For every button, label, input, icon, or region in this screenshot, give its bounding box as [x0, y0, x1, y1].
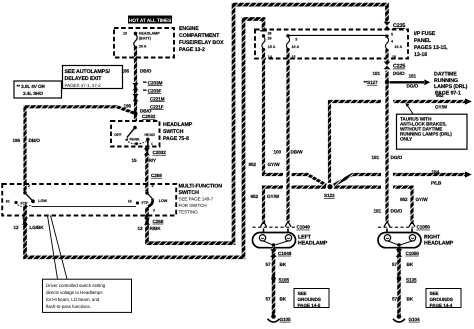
svg-text:HI: HI	[128, 199, 132, 203]
svg-text:181: 181	[409, 74, 417, 79]
svg-text:C2032: C2032	[153, 150, 167, 155]
svg-text:PAGE 75-8: PAGE 75-8	[163, 136, 189, 142]
engine compartment fuse/relay box (dashed)	[114, 28, 174, 58]
svg-text:PAGE 13-2: PAGE 13-2	[179, 47, 205, 53]
svg-text:HI: HI	[6, 199, 10, 203]
svg-text:HEADLAMP: HEADLAMP	[139, 31, 160, 35]
svg-text:57: 57	[392, 262, 398, 267]
svg-text:100: 100	[274, 149, 282, 154]
label 12 LG/BK	[14, 225, 45, 230]
svg-text:PAGES 47-1, 47-2: PAGES 47-1, 47-2	[65, 83, 102, 88]
TAURUS note leader	[408, 106, 414, 115]
svg-text:PAGE 14-5: PAGE 14-5	[298, 303, 321, 308]
connector C221 inline symbol	[132, 94, 138, 101]
svg-text:** 3.0L 4V OR: ** 3.0L 4V OR	[17, 84, 46, 89]
wire 952 GY/W to DRL (hatched, right edge arrow)	[393, 100, 465, 103]
I/P fuse panel box (dashed)	[255, 30, 408, 59]
svg-text:952: 952	[400, 197, 408, 202]
label 57 BK right upper	[392, 262, 414, 267]
svg-text:GY/W: GY/W	[416, 197, 429, 202]
svg-text:HOT AT ALL TIMES: HOT AT ALL TIMES	[129, 18, 172, 24]
svg-text:R/BK: R/BK	[150, 226, 162, 231]
label 57 BK left lower	[266, 297, 287, 302]
connector C268 symbol on 13 wire	[144, 218, 150, 225]
svg-text:2: 2	[28, 184, 30, 188]
svg-text:PARK: PARK	[130, 138, 141, 142]
wire segment after crossover into S123 diagonal	[292, 175, 328, 186]
connector C235 symbol	[384, 22, 391, 30]
svg-text:DB/O: DB/O	[140, 109, 152, 114]
left headlamp caption	[298, 234, 328, 246]
svg-text:LAMPS (DRL): LAMPS (DRL)	[434, 84, 468, 90]
svg-text:GROUNDS: GROUNDS	[298, 297, 321, 302]
svg-text:HEAD: HEAD	[145, 133, 156, 137]
svg-text:184: 184	[432, 169, 440, 174]
svg-text:SEE AUTOLAMPS/: SEE AUTOLAMPS/	[65, 69, 111, 75]
fuse bus: fuse2 top to fuse3 top	[288, 34, 387, 36]
I/P fuse panel caption	[414, 31, 448, 58]
svg-text:C221F: C221F	[150, 104, 164, 109]
wire 57 BK: left headlamp ground	[272, 248, 276, 315]
connector C1050 lower symbol	[396, 249, 403, 257]
svg-text:C1049: C1049	[297, 225, 311, 230]
svg-text:3: 3	[153, 209, 155, 213]
wire 100 DB/W: fuse 2 output down to left headlamp right pin	[286, 51, 289, 223]
left SEE GROUNDS box	[294, 289, 329, 309]
svg-text:BK: BK	[280, 297, 287, 302]
svg-text:SWITCH: SWITCH	[163, 129, 184, 135]
wire 952 elbow down to S123	[330, 102, 382, 185]
svg-text:directs voltage to Headlamps: directs voltage to Headlamps	[46, 290, 103, 295]
svg-text:13-16: 13-16	[414, 52, 427, 58]
label 196 DB/O upper	[122, 68, 152, 73]
svg-text:HEADLAMP: HEADLAMP	[163, 122, 193, 128]
svg-text:C268: C268	[151, 173, 162, 178]
wire 952: through run at S123 to both headlamps	[264, 187, 284, 224]
svg-text:**S127: **S127	[364, 80, 378, 85]
fuse 3 (10A)	[385, 32, 402, 59]
svg-text:DG/O: DG/O	[407, 84, 419, 89]
svg-text:PAGES 13-15,: PAGES 13-15,	[414, 45, 448, 51]
svg-text:** C203F: ** C203F	[143, 88, 161, 93]
svg-text:HEADLAMP: HEADLAMP	[424, 240, 454, 246]
wire 13 R/BK: MFS low output, run up to I/P fuse panel C235	[147, 5, 387, 244]
svg-text:DAYTIME: DAYTIME	[434, 71, 457, 77]
fuse F (HEADLAMP BATT 30A) in engine box	[123, 31, 160, 49]
label 952 GY/W at right headlamp	[400, 197, 428, 202]
splice S135	[397, 276, 402, 281]
wire: 3.0L/SHO alternate 196 branch to multi-function switch	[25, 107, 136, 192]
svg-text:S165: S165	[279, 277, 290, 282]
svg-text:DG/O: DG/O	[391, 155, 403, 160]
svg-text:C225: C225	[393, 64, 405, 70]
svg-text:15: 15	[292, 55, 296, 59]
wire 184 P/LB: S123 up-right to right edge arrow	[333, 175, 382, 186]
svg-text:C221M: C221M	[150, 96, 165, 101]
label 13 R/BK	[138, 226, 162, 231]
wire 181 DG/O: fuse 3 output down through C225, S127 to right headlamp	[385, 51, 388, 222]
svg-text:ENGINE: ENGINE	[179, 26, 199, 32]
svg-text:GY/W: GY/W	[267, 194, 280, 199]
multi-function switch box (dashed)	[2, 184, 176, 216]
svg-text:** C203M: ** C203M	[143, 80, 162, 85]
svg-text:16: 16	[392, 55, 396, 59]
svg-text:ONLY: ONLY	[400, 137, 413, 142]
left headlamp B1	[253, 229, 296, 248]
fuse 2 (10A)	[286, 34, 299, 59]
wire 12 LG/BK: MFS high output, bottom run up to I/P fuse 1	[25, 19, 264, 257]
svg-text:10 A: 10 A	[292, 45, 300, 49]
svg-text:GY/W: GY/W	[435, 104, 448, 109]
label 181 DG/O mid	[372, 155, 403, 160]
svg-text:952: 952	[249, 162, 257, 167]
right headlamp B2	[378, 229, 421, 248]
3.0L 4V OR 3.4L SHO note box	[14, 81, 62, 98]
svg-text:HEADLAMP: HEADLAMP	[298, 240, 328, 246]
ground G104 symbol	[393, 314, 405, 322]
svg-text:196: 196	[124, 103, 132, 108]
svg-text:flash-to-pass functions.: flash-to-pass functions.	[46, 304, 91, 309]
svg-text:C1050: C1050	[406, 251, 420, 256]
wire 57 BK: right headlamp ground	[397, 248, 401, 315]
svg-text:BK: BK	[407, 262, 414, 267]
svg-text:30: 30	[268, 37, 272, 41]
label 196 DB/O on branch vertical	[13, 138, 41, 143]
svg-text:DB/O: DB/O	[140, 68, 152, 73]
label 57 BK right lower	[392, 297, 414, 302]
black banner HOT AT ALL TIMES	[128, 16, 172, 24]
connector C1049 dashed line and label	[253, 226, 296, 228]
wire 952 GY/W: fuse 1 output down to upper distribution	[264, 51, 284, 175]
connector C225 symbol	[384, 62, 391, 70]
label 181 DG/O at right headlamp	[374, 209, 403, 214]
svg-text:2: 2	[152, 184, 154, 188]
mechanical link line between switch halves	[32, 206, 137, 208]
svg-text:S123: S123	[324, 193, 335, 198]
splice S127	[385, 80, 389, 84]
svg-text:TESTING: TESTING	[179, 210, 199, 215]
svg-text:R/Y: R/Y	[149, 158, 157, 163]
wire 15 R/Y: headlamp switch to multi-function switch	[145, 147, 148, 192]
svg-text:G105: G105	[280, 317, 292, 322]
engine box caption	[179, 26, 224, 53]
connector labels C203M C203F C221M C221F	[143, 80, 165, 109]
label 184 P/LB	[431, 169, 442, 185]
svg-text:3: 3	[295, 38, 297, 42]
TAURUS note box	[397, 114, 468, 149]
MFS dimmer switch SW2a (high beam side) internals	[6, 184, 48, 207]
right SEE GROUNDS box	[426, 289, 461, 309]
svg-text:I/P FUSE: I/P FUSE	[414, 31, 436, 37]
connector C1049 lower symbol	[270, 249, 277, 257]
svg-text:BK: BK	[407, 297, 414, 302]
svg-text:12: 12	[14, 225, 20, 230]
svg-text:15 A: 15 A	[268, 45, 276, 49]
svg-text:OFF: OFF	[114, 133, 122, 137]
svg-text:36: 36	[268, 32, 272, 36]
driver note box	[43, 279, 132, 312]
svg-text:DG/O: DG/O	[393, 71, 405, 76]
headlamp switch caption	[163, 122, 193, 142]
fuse 1 (15A)	[260, 31, 276, 59]
svg-text:(BATT): (BATT)	[139, 37, 152, 41]
label 100 DB/W	[274, 149, 304, 154]
daytime running lamps caption	[434, 71, 468, 96]
svg-text:13: 13	[138, 226, 144, 231]
left headlamp connector chevrons	[261, 222, 267, 227]
svg-text:DELAYED EXIT: DELAYED EXIT	[65, 76, 103, 82]
label 15 R/Y	[132, 158, 157, 163]
junction node	[134, 112, 138, 116]
SEE AUTOLAMPS note box	[63, 66, 123, 89]
svg-text:Driver controlled switch setti: Driver controlled switch setting	[46, 283, 106, 288]
svg-text:57: 57	[392, 297, 398, 302]
right headlamp caption	[424, 234, 454, 246]
svg-text:181: 181	[373, 71, 381, 76]
svg-text:57: 57	[266, 262, 272, 267]
svg-text:181: 181	[374, 209, 382, 214]
svg-text:PAGE 14-4: PAGE 14-4	[430, 303, 453, 308]
ground G105 symbol	[268, 314, 280, 322]
wire arrow 181 DG/O to daytime running lamps	[390, 74, 431, 89]
driver note leader lines	[48, 216, 58, 280]
svg-text:PANEL: PANEL	[414, 38, 432, 44]
svg-text:DG/O: DG/O	[391, 209, 403, 214]
svg-text:SWITCH: SWITCH	[179, 190, 200, 196]
svg-text:G104: G104	[409, 317, 421, 322]
svg-text:SEE: SEE	[430, 291, 439, 296]
svg-text:C1049: C1049	[278, 251, 292, 256]
svg-text:FOR SWITCH: FOR SWITCH	[179, 203, 207, 208]
svg-text:15: 15	[132, 158, 138, 163]
splice S123	[326, 183, 334, 191]
svg-text:COMPARTMENT: COMPARTMENT	[179, 33, 220, 39]
svg-text:952: 952	[436, 93, 444, 98]
svg-text:30 A: 30 A	[139, 45, 147, 49]
svg-text:MULTI-FUNCTION: MULTI-FUNCTION	[179, 184, 223, 190]
multi-function switch caption	[179, 184, 223, 215]
svg-text:BK: BK	[280, 262, 287, 267]
connector C1050 dashed line and label	[378, 226, 414, 228]
headlamp switch box (dashed)	[111, 121, 160, 147]
svg-text:LOW: LOW	[159, 199, 168, 203]
right headlamp connector chevrons	[384, 222, 390, 227]
svg-text:for HI beam, LO beam, and: for HI beam, LO beam, and	[46, 297, 100, 302]
wire 196 DB/O: engine box to headlamp switch	[134, 49, 137, 122]
label 952 GY/W at left headlamp	[251, 194, 280, 199]
svg-text:DB/O: DB/O	[29, 138, 41, 143]
svg-text:FUSE/RELAY BOX: FUSE/RELAY BOX	[179, 40, 224, 46]
svg-text:C235: C235	[393, 23, 405, 29]
svg-text:5: 5	[391, 32, 393, 36]
svg-text:LOW: LOW	[38, 199, 47, 203]
svg-text:GY/W: GY/W	[268, 162, 281, 167]
svg-text:SEE: SEE	[298, 291, 307, 296]
svg-text:10 A: 10 A	[395, 45, 403, 49]
svg-text:C1050: C1050	[417, 225, 431, 230]
svg-text:GROUNDS: GROUNDS	[430, 297, 453, 302]
svg-text:DB/W: DB/W	[291, 149, 304, 154]
label 952 GY/W upper	[249, 162, 281, 167]
svg-text:RUNNING: RUNNING	[434, 78, 458, 84]
label 181 DG/O above S127	[373, 71, 406, 76]
svg-text:10: 10	[123, 31, 127, 35]
svg-text:196: 196	[13, 138, 21, 143]
svg-text:57: 57	[266, 297, 272, 302]
connector C203 inline symbol	[132, 83, 138, 90]
svg-text:LG/BK: LG/BK	[30, 225, 45, 230]
headlamp switch SW1 internals	[114, 126, 155, 147]
svg-text:3.4L SHO: 3.4L SHO	[23, 91, 43, 96]
svg-text:S135: S135	[406, 277, 417, 282]
splice S165	[271, 276, 276, 281]
svg-text:P/LB: P/LB	[431, 180, 442, 185]
svg-text:C2032: C2032	[142, 114, 156, 119]
MFS dimmer switch SW2b (low beam side) internals	[128, 184, 168, 213]
connector C268 symbol on 12 wire	[22, 218, 28, 225]
svg-text:C268: C268	[153, 219, 164, 224]
connector C2032 lower symbol	[144, 148, 150, 155]
svg-text:SEE PAGE 149-7: SEE PAGE 149-7	[179, 197, 214, 202]
svg-text:FTP: FTP	[142, 201, 150, 205]
svg-text:181: 181	[372, 155, 380, 160]
svg-text:952: 952	[251, 194, 259, 199]
label 57 BK left upper	[266, 262, 287, 267]
